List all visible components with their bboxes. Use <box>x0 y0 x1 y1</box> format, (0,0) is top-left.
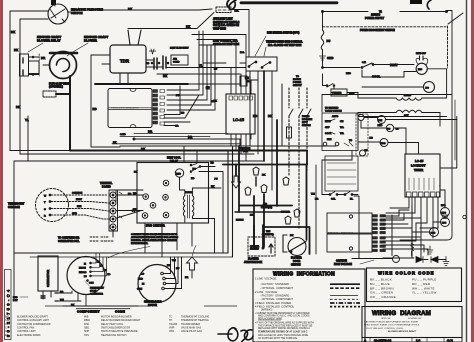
svg-text:OFF: OFF <box>325 127 330 129</box>
svg-text:(OPTIONAL): (OPTIONAL) <box>49 86 63 89</box>
svg-text:AUTO: AUTO <box>332 115 338 118</box>
induced draft blower motor BID <box>50 52 77 79</box>
fan center box <box>137 163 209 224</box>
wire from aux limit to fan switch <box>231 10 249 58</box>
small box lower-left of switches <box>240 76 247 86</box>
switch CF heat/cool <box>361 67 363 69</box>
svg-text:JUMPERS: JUMPERS <box>250 249 259 251</box>
node L2 <box>446 11 448 13</box>
svg-text:MOTOR INDOOR BLOWER: MOTOR INDOOR BLOWER <box>101 316 132 319</box>
svg-text:BR: BR <box>185 277 189 279</box>
wire TDR coil leads up <box>128 30 141 45</box>
right red border strip <box>471 0 474 342</box>
svg-text:TO HEATING: TO HEATING <box>325 107 339 110</box>
SECTION: wiring diagram title box <box>362 307 462 338</box>
wire bus y133 <box>134 133 228 135</box>
svg-text:90-21750-04: 90-21750-04 <box>374 338 391 342</box>
wire bus y74 <box>157 73 240 75</box>
SECTION: wire color code box <box>367 268 462 302</box>
wire nut 3 <box>261 185 267 193</box>
svg-text:DESIRED. SEE BLOWER SPEEDS CHA: DESIRED. SEE BLOWER SPEEDS CHANGE <box>131 239 177 242</box>
svg-text:AND CONFORM TO N.E.C. AND LOCA: AND CONFORM TO N.E.C. AND LOCAL CODES <box>258 315 310 318</box>
svg-text:BK: BK <box>250 215 254 217</box>
wire left leads of control box <box>91 55 120 147</box>
dashed optional box <box>356 114 368 156</box>
dashed leads to terminal board <box>51 194 108 196</box>
svg-text:TEMPERATURE RATING OF AT LEAST: TEMPERATURE RATING OF AT LEAST 105 C <box>258 330 308 333</box>
relay contact stack 1 <box>154 58 157 69</box>
wire second bus to aux limit <box>128 13 214 29</box>
svg-text:HEAT: HEAT <box>390 63 398 67</box>
svg-text:HEAT: HEAT <box>76 198 82 201</box>
SECTION: lockout timer LO-15 <box>405 154 440 197</box>
svg-text:TRANS: TRANS <box>185 191 193 194</box>
ink blob scan artifact top-left <box>51 0 56 5</box>
handwritten initials scan mark <box>218 328 253 342</box>
svg-text:BK: BK <box>14 48 18 52</box>
svg-text:1 LINE VOLTAGE: 1 LINE VOLTAGE <box>255 277 277 281</box>
wire left drop to capacitor <box>14 161 28 300</box>
svg-text:- FACTORY STANDARD: - FACTORY STANDARD <box>260 282 289 286</box>
thick junction wires <box>238 146 240 212</box>
wire power supply left <box>323 11 369 13</box>
svg-text:BR: BR <box>41 56 45 60</box>
svg-text:GAS FIRED FORCED AIR FURNACE S: GAS FIRED FORCED AIR FURNACE SINGLE STAG… <box>364 320 419 323</box>
svg-text:M-B: M-B <box>418 69 423 71</box>
fuse box 15 amp <box>331 89 347 96</box>
svg-text:BR: BR <box>148 130 152 134</box>
svg-text:HEAT, SINGLE STAGE COOL POWER: HEAT, SINGLE STAGE COOL POWERTENNA OPT'N… <box>364 324 420 327</box>
svg-text:BK: BK <box>290 235 294 237</box>
wires terminal board to fan center <box>113 190 143 237</box>
svg-text:HIGH VOLTAGE: HIGH VOLTAGE <box>334 263 352 266</box>
capacitor leads <box>43 291 51 299</box>
wire right rail drop <box>440 117 457 169</box>
svg-text:CAL: CAL <box>331 198 336 201</box>
svg-text:YL: YL <box>25 118 29 122</box>
svg-text:SUPPLY: SUPPLY <box>293 85 302 87</box>
svg-text:OR _ _ ORANGE: OR _ _ ORANGE <box>370 295 396 299</box>
svg-text:BK: BK <box>186 25 190 29</box>
svg-text:115 V: 115 V <box>302 122 308 124</box>
limit control switch contacts <box>249 62 255 66</box>
svg-text:LPS: LPS <box>442 223 447 225</box>
system switch lower box <box>325 156 358 191</box>
wire left of switch box <box>240 62 246 64</box>
compressor motor M-B <box>416 63 427 74</box>
svg-text:RELAY HEAT COOL: RELAY HEAT COOL <box>101 323 124 326</box>
part number vertical strip <box>5 270 12 340</box>
svg-text:LIMIT ELEC HEAT: LIMIT ELEC HEAT <box>170 47 189 50</box>
svg-text:BK: BK <box>141 147 145 151</box>
svg-text:RD: RD <box>146 63 150 65</box>
svg-text:BLOWER: BLOWER <box>84 39 97 43</box>
wire TDR to contacts <box>146 60 163 67</box>
svg-text:HOUSE: HOUSE <box>293 79 301 81</box>
fan/limit switch box <box>246 57 277 71</box>
svg-text:TDR: TDR <box>120 59 130 64</box>
svg-text:(WIRING): (WIRING) <box>261 307 273 311</box>
svg-text:MED: MED <box>138 279 143 281</box>
svg-text:VALVE MAIN GAS: VALVE MAIN GAS <box>181 326 201 329</box>
svg-text:RBID: RBID <box>84 319 90 322</box>
svg-text:INSTRUCTIONS.: INSTRUCTIONS. <box>131 243 148 245</box>
svg-text:HPS: HPS <box>442 213 447 215</box>
svg-text:CAPACITOR: CAPACITOR <box>90 293 103 296</box>
svg-text:BLOWER INDUCED DRAFT: BLOWER INDUCED DRAFT <box>388 330 417 333</box>
svg-text:BK: BK <box>163 74 167 78</box>
svg-text:RBO: RBO <box>381 143 386 145</box>
svg-text:TEMP RISE: TEMP RISE <box>213 27 226 30</box>
svg-text:RD: RD <box>370 138 374 140</box>
svg-text:MIB: MIB <box>84 316 89 319</box>
svg-text:TC: TC <box>349 140 352 142</box>
svg-text:WIRING DIAGRAM: WIRING DIAGRAM <box>372 310 431 317</box>
svg-text:RUN CAP: RUN CAP <box>416 52 427 55</box>
svg-text:FOR ELEC SPEC INSTALLATION: FOR ELEC SPEC INSTALLATION <box>111 107 139 110</box>
motor speed taps <box>90 262 92 264</box>
wires box top to buses <box>184 146 197 163</box>
indoor blower motor MIB <box>67 257 105 295</box>
transformer secondary 24V <box>396 110 422 112</box>
svg-text:BK: BK <box>211 186 215 188</box>
fused disconnect dashed line <box>323 26 447 28</box>
timer relay TDR <box>110 45 146 73</box>
svg-text:WIRING INFORMATION: WIRING INFORMATION <box>273 272 335 278</box>
wire CC to lockout <box>361 121 406 155</box>
svg-text:BO: BO <box>426 88 430 90</box>
svg-text:BR: BR <box>315 199 319 201</box>
svg-text:CONTACTOR COIL: CONTACTOR COIL <box>58 240 80 243</box>
svg-text:POWER: POWER <box>293 82 302 84</box>
wire bus BR y139 <box>135 139 240 146</box>
svg-text:UPFLOW: UPFLOW <box>381 318 391 320</box>
svg-text:PERMANENT: PERMANENT <box>90 287 105 290</box>
svg-text:RD: RD <box>181 113 185 115</box>
svg-text:RELAY BLOWER INDUCED DRAFT: RELAY BLOWER INDUCED DRAFT <box>101 319 141 322</box>
svg-text:JUNCTION BOX: JUNCTION BOX <box>244 261 262 264</box>
svg-text:FUSED: FUSED <box>302 116 310 118</box>
SECTION: blower junction box <box>248 237 275 256</box>
control box stacked pair <box>108 89 152 128</box>
wire to BO <box>362 86 423 88</box>
wire to right rail <box>364 118 457 120</box>
svg-text:OR: OR <box>246 81 250 83</box>
svg-text:W/H: W/H <box>266 231 271 233</box>
svg-text:CONTROL FAN: CONTROL FAN <box>17 326 34 329</box>
relay coil RBO <box>380 139 388 147</box>
wire left rail to fuse box <box>323 74 359 93</box>
svg-text:TRANSFORMER: TRANSFORMER <box>181 323 200 326</box>
svg-text:PILOT RELIGHT CONTROL (100%: PILOT RELIGHT CONTROL (100%) <box>366 328 403 330</box>
jumper block AIR COND <box>171 55 188 65</box>
svg-text:RED: RED <box>13 297 18 299</box>
thermostat subbase dashed circle <box>36 189 69 222</box>
wire bus y154 <box>20 153 254 155</box>
svg-text:FAN: FAN <box>77 205 82 208</box>
svg-text:HFS: HFS <box>84 334 89 337</box>
relay RHC coil <box>175 169 183 177</box>
wires from strip rows <box>164 86 199 126</box>
svg-text:• CABINET MUST BE PERMANENTLY: • CABINET MUST BE PERMANENTLY GROUNDED <box>255 312 310 315</box>
svg-text:- OPTIONAL COMPONENT: - OPTIONAL COMPONENT <box>260 297 293 301</box>
fan-out wires from terminal strip up to bus <box>167 31 215 110</box>
svg-text:N.C.: N.C. <box>240 52 245 54</box>
svg-text:GRD: GRD <box>327 56 334 60</box>
svg-text:NC: NC <box>193 169 197 171</box>
svg-text:FAN HEATER SWITCH (OPT): FAN HEATER SWITCH (OPT) <box>267 32 300 35</box>
wire left rail <box>322 12 324 31</box>
svg-text:DOWNFLOW: DOWNFLOW <box>408 318 422 320</box>
svg-text:COM: COM <box>89 283 94 285</box>
node L1 <box>322 11 324 13</box>
electrode spark ES zigzag <box>411 243 414 256</box>
wire heat to compressor <box>374 64 414 66</box>
lockout relay LO-15 (control) <box>226 94 255 134</box>
svg-text:GRD: GRD <box>72 213 77 215</box>
wire inner loop <box>20 19 48 154</box>
wire LO-15 leads up <box>231 68 258 95</box>
svg-text:AIR: AIR <box>173 58 177 61</box>
svg-text:MOTOR: MOTOR <box>148 304 157 307</box>
scan artifact cursive stroke <box>227 0 236 9</box>
svg-text:- OPTIONAL COMPONENT: - OPTIONAL COMPONENT <box>260 286 293 290</box>
svg-text:COND: COND <box>173 62 180 64</box>
svg-text:VMR: VMR <box>169 326 175 329</box>
svg-text:CODE: CODE <box>115 309 125 313</box>
svg-text:T.C.: T.C. <box>340 127 344 129</box>
svg-text:THERMOSTAT HEATING: THERMOSTAT HEATING <box>181 319 209 322</box>
svg-text:CONNECT WIRES FROM JUNCTION BO: CONNECT WIRES FROM JUNCTION BOX TO <box>131 234 178 236</box>
wire long drop <box>354 196 359 258</box>
svg-text:DISCONN: DISCONN <box>302 119 313 121</box>
svg-text:LO: LO <box>141 274 144 276</box>
svg-text:MED HI: MED HI <box>79 268 86 270</box>
svg-text:BLOWER INDUCED DRAFT: BLOWER INDUCED DRAFT <box>17 316 49 319</box>
svg-text:DOT: DOT <box>13 300 18 302</box>
blower motor BO circle <box>424 82 435 93</box>
svg-text:MED LO: MED LO <box>79 272 87 274</box>
SECTION: shaded pole motor <box>138 265 176 303</box>
svg-text:TC: TC <box>169 316 172 319</box>
terminals CAL BL <box>329 194 331 196</box>
pin labels vertical <box>409 178 434 190</box>
dashed field power wire 2 <box>298 88 300 228</box>
svg-text:N.O. CLOSED ON TEMP RISE: N.O. CLOSED ON TEMP RISE <box>268 44 302 47</box>
wire between relay boxes <box>29 57 40 75</box>
terminal squares <box>407 192 440 197</box>
svg-text:YL _ _ YELLOW: YL _ _ YELLOW <box>412 291 437 295</box>
wire bus y67 <box>166 67 246 69</box>
svg-text:• IF ANY OF THE ORIGINAL WIRE: • IF ANY OF THE ORIGINAL WIRE AS SUPPLIE… <box>255 322 314 325</box>
SECTION: furnace junction terminal blocks <box>327 213 372 233</box>
svg-text:BOARD: BOARD <box>102 186 111 189</box>
svg-text:BR: BR <box>188 135 192 139</box>
svg-text:CONTACTOR COMPRESSOR: CONTACTOR COMPRESSOR <box>17 323 51 326</box>
wire nut 6 <box>285 216 291 224</box>
svg-text:SBD: SBD <box>84 326 89 329</box>
auxiliary limit switch CAL (dashed, downflow only) <box>216 7 231 13</box>
svg-text:BOX: BOX <box>243 151 248 153</box>
svg-text:G-ND: G-ND <box>120 134 126 136</box>
wire cool branch <box>362 70 416 77</box>
right rail long <box>454 100 456 160</box>
wire top bus BK <box>68 9 212 12</box>
pressure switch LPS circle <box>442 215 448 219</box>
svg-text:POWER SUPPLY: POWER SUPPLY <box>365 17 384 20</box>
wire power supply right <box>400 11 446 13</box>
svg-text:CONTROL LIMIT: CONTROL LIMIT <box>17 330 36 333</box>
SECTION: blower door switch SBD <box>283 235 287 252</box>
svg-text:BK: BK <box>134 172 138 174</box>
scan artifact blob top <box>410 0 422 4</box>
svg-text:PU: PU <box>215 179 218 181</box>
left red border strip <box>0 0 3 342</box>
svg-text:CAPACITOR: CAPACITOR <box>46 270 50 287</box>
svg-text:HEATER: HEATER <box>281 211 290 214</box>
svg-text:OR: OR <box>175 126 179 128</box>
svg-text:4 / 2: 4 / 2 <box>447 338 453 342</box>
svg-text:VALVE PILOT GAS: VALVE PILOT GAS <box>181 330 202 333</box>
svg-text:THERMOSTAT COOLING: THERMOSTAT COOLING <box>181 316 209 319</box>
svg-text:90-21750-C4: 90-21750-C4 <box>7 287 11 337</box>
wire secondary leads <box>358 113 440 127</box>
relay contacts <box>191 164 199 172</box>
svg-text:HEATER FAN SWITCH: HEATER FAN SWITCH <box>101 334 127 337</box>
svg-text:REPLACED WITH WIRING MATERIAL: REPLACED WITH WIRING MATERIAL HAVING A <box>258 327 310 330</box>
heater HF circle <box>360 150 366 156</box>
diode spark electrode 2 <box>431 257 438 263</box>
svg-text:- FACTORY STANDARD: - FACTORY STANDARD <box>260 293 289 297</box>
svg-text:WH: WH <box>172 260 176 262</box>
pilot safety circle <box>378 116 386 124</box>
svg-text:T.H.: T.H. <box>340 133 344 135</box>
svg-text:ELECTRODE SPARK: ELECTRODE SPARK <box>17 334 41 337</box>
wire RBO to lockout <box>358 142 419 154</box>
svg-text:COMMON: COMMON <box>72 193 83 195</box>
wire drops from switch box <box>249 71 251 146</box>
svg-text:SWITCH NEGATIVE PRESSURE: SWITCH NEGATIVE PRESSURE <box>101 330 138 333</box>
svg-text:SWITCH: SWITCH <box>291 264 301 267</box>
wires to door switch <box>307 151 310 255</box>
wires motor bottom arcs <box>72 291 86 306</box>
diode spark electrode 1 <box>416 257 423 263</box>
right page edge scan line <box>466 0 468 342</box>
svg-text:TH: TH <box>169 319 172 322</box>
svg-text:LO-15: LO-15 <box>415 159 424 163</box>
contactor coil CC <box>386 124 393 131</box>
svg-text:WH: WH <box>60 300 64 302</box>
svg-text:COOL: COOL <box>325 133 332 135</box>
wire nut 2 <box>245 187 251 195</box>
svg-text:TO: TO <box>296 76 299 78</box>
svg-text:CC: CC <box>387 129 391 131</box>
field arrow symbol <box>187 257 198 270</box>
svg-text:NO: NO <box>191 178 195 180</box>
gas valve circle <box>430 228 439 237</box>
svg-text:FU: FU <box>327 39 331 43</box>
svg-text:SWITCH BLOWER DOOR: SWITCH BLOWER DOOR <box>101 326 130 329</box>
svg-text:BK: BK <box>128 7 132 11</box>
relay terminal circles in fan center <box>143 194 149 200</box>
svg-text:COMPONENT: COMPONENT <box>77 309 100 313</box>
relay contact stack 2 <box>163 56 166 69</box>
svg-text:BU: BU <box>176 268 180 270</box>
svg-text:PU: PU <box>133 209 136 211</box>
svg-text:RD: RD <box>133 193 137 195</box>
svg-text:T-STAT SWITCH: T-STAT SWITCH <box>325 110 342 113</box>
svg-text:YL: YL <box>199 64 203 68</box>
svg-text:SPLIT: SPLIT <box>90 291 97 293</box>
wires from blocks to right <box>383 210 428 255</box>
wire full width y116.5 <box>358 116 447 118</box>
svg-text:RD: RD <box>214 69 218 71</box>
wires fan center down to motors <box>145 223 192 257</box>
svg-text:VPR: VPR <box>169 330 174 333</box>
svg-text:CONTROL AUXILIARY LIMIT: CONTROL AUXILIARY LIMIT <box>17 319 49 322</box>
terminal strip of control box <box>153 90 158 125</box>
hollow arrow connector <box>232 176 241 188</box>
svg-text:A/C: A/C <box>263 203 267 206</box>
wire bus thick y150.5 <box>70 150 307 152</box>
wire compressor to right rail <box>427 69 446 98</box>
svg-text:2 LOW VOLTAGE: 2 LOW VOLTAGE <box>255 290 277 294</box>
motor lead wires <box>58 293 138 306</box>
leader lines from note text <box>108 246 196 259</box>
SECTION: wiring information box <box>253 269 365 342</box>
svg-text:AS SUPPLIED WITH THE FURNACE.: AS SUPPLIED WITH THE FURNACE. <box>258 337 298 340</box>
wire bus y144 <box>112 143 240 145</box>
svg-text:WH: WH <box>311 194 315 196</box>
wire heat line <box>323 50 361 68</box>
polarity mark <box>149 49 155 54</box>
svg-text:C.F.: C.F. <box>362 62 366 64</box>
negative pressure switch SNP <box>48 4 68 24</box>
svg-text:BU: BU <box>176 95 180 97</box>
fuse FU wavy <box>321 30 324 50</box>
svg-text:TIMER: TIMER <box>414 168 423 172</box>
scan artifact heavy top rule <box>241 1 337 4</box>
svg-text:SNP: SNP <box>84 330 89 333</box>
arrow jumper in box <box>269 244 273 253</box>
svg-text:RD: RD <box>93 107 97 111</box>
svg-text:RHC: RHC <box>346 73 351 75</box>
svg-text:BR: BR <box>60 292 64 294</box>
wire bus y136 <box>120 136 210 138</box>
wires shaded pole up <box>164 257 182 289</box>
svg-text:RHC: RHC <box>84 323 90 326</box>
thermostat terminals <box>49 194 51 196</box>
svg-text:JUNCTION: JUNCTION <box>239 148 251 150</box>
legend line samples <box>330 283 360 285</box>
wire bus y161 <box>28 160 263 162</box>
disconnect switch blade <box>448 13 463 24</box>
dashed field power wire 1 <box>288 88 290 175</box>
svg-text:BK: BK <box>268 114 272 118</box>
wire rail <box>357 113 359 143</box>
svg-text:1HEAT(S6): 1HEAT(S6) <box>261 206 272 209</box>
svg-text:RHC: RHC <box>378 125 383 127</box>
svg-text:WIRE COLOR CODE: WIRE COLOR CODE <box>378 271 435 276</box>
pilot circle on wire <box>393 256 400 263</box>
wires LO-15 terminals fan down-left <box>386 197 438 238</box>
thick feed bus into arrow <box>223 164 277 166</box>
transformer leads <box>180 177 185 195</box>
svg-text:WIRE NUTS — SPRING NUTS: WIRE NUTS — SPRING NUTS <box>328 233 354 235</box>
relay RBID contact box 1 <box>20 54 29 76</box>
svg-text:1 3: 1 3 <box>416 338 421 342</box>
ground symbol near gas <box>427 246 433 254</box>
